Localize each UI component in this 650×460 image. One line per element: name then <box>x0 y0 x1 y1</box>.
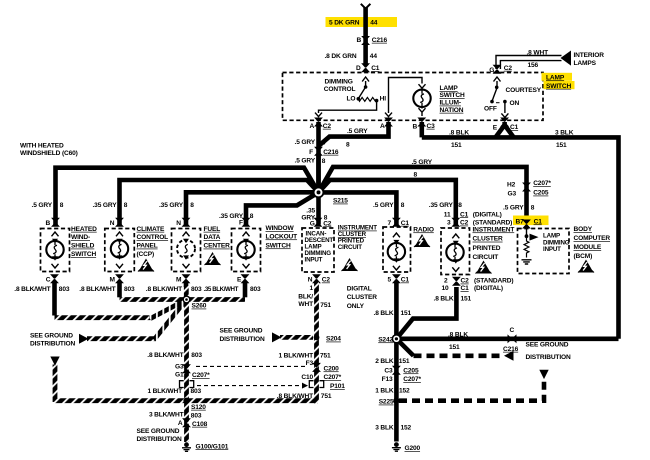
wire: dimmer output A C2 + A merge <box>316 122 321 192</box>
wire: radio ground to S242 <box>394 281 399 339</box>
svg-text:G3: G3 <box>508 190 517 197</box>
svg-text:152: 152 <box>399 388 410 395</box>
svg-text:.8 BLK/WHT: .8 BLK/WHT <box>147 352 183 359</box>
svg-text:1 BLK: 1 BLK <box>375 388 394 395</box>
svg-text:MODULE: MODULE <box>574 244 602 251</box>
svg-text:CIRCUIT: CIRCUIT <box>473 254 499 261</box>
feeder to fuel data center <box>186 192 319 224</box>
svg-text:3 BLK: 3 BLK <box>375 424 394 431</box>
svg-text:B7: B7 <box>516 218 525 225</box>
BCM internal: resistor <box>524 236 529 257</box>
pin A C2 <box>314 118 323 127</box>
svg-text:C1: C1 <box>461 285 470 292</box>
svg-text:C2: C2 <box>322 277 331 284</box>
svg-text:CLUSTER: CLUSTER <box>347 294 377 301</box>
incandescent lamp dimming input box <box>302 228 334 272</box>
wire pin G to courtesy switch <box>496 81 498 87</box>
feeder to BCM (right) <box>319 167 527 225</box>
arrow into P101 <box>302 383 308 389</box>
svg-text:G3: G3 <box>175 363 184 370</box>
wire lamp to pin B C3 <box>421 107 423 116</box>
svg-text:CENTER: CENTER <box>204 243 231 250</box>
arrow below lamp <box>419 108 426 112</box>
svg-text:INPUT: INPUT <box>543 246 561 253</box>
pin N (fuel data center) <box>182 218 191 227</box>
svg-text:151: 151 <box>451 142 462 149</box>
svg-text:SWITCH: SWITCH <box>266 242 291 249</box>
svg-text:F13: F13 <box>382 376 393 383</box>
see ground distribution (S242) <box>396 339 413 356</box>
splice S260 <box>183 296 191 304</box>
yellow highlight B7 C1 <box>513 216 549 226</box>
pin B7 C1 (BCM) <box>522 220 531 229</box>
wire: S242 down <box>394 339 399 442</box>
pin M (fuel data center) <box>182 274 191 283</box>
svg-text:C2: C2 <box>461 278 470 285</box>
connector C216 pin C (horizontal) <box>508 334 517 343</box>
ESD symbol (instrument cluster left) <box>342 258 358 271</box>
svg-text:.5 GRY: .5 GRY <box>295 139 316 146</box>
svg-text:G200: G200 <box>405 445 421 452</box>
svg-text:.8 BLK: .8 BLK <box>449 129 469 136</box>
splice S242 <box>392 334 402 344</box>
svg-text:803: 803 <box>124 286 135 293</box>
svg-text:M: M <box>176 277 182 284</box>
svg-text:44: 44 <box>370 20 378 27</box>
svg-text:S242: S242 <box>378 336 393 343</box>
svg-text:.8 DK GRN: .8 DK GRN <box>325 53 357 60</box>
hatched run lockout to S260 <box>187 297 246 302</box>
pin 5 C1 (radio) <box>392 274 401 283</box>
lamp: climate control panel illumination <box>111 240 128 257</box>
connector C200 pin F3 <box>312 363 321 372</box>
ESD symbol (instrument cluster right) <box>476 261 492 274</box>
svg-text:BODY: BODY <box>574 226 593 233</box>
ESD symbol (ccp) <box>138 259 154 272</box>
svg-text:C216: C216 <box>372 37 388 44</box>
svg-text:C2: C2 <box>323 220 332 227</box>
hatched run ccp to S260 <box>120 297 187 302</box>
svg-text:5 DK GRN: 5 DK GRN <box>329 20 360 27</box>
svg-text:DISTRIBUTION: DISTRIBUTION <box>526 354 571 361</box>
svg-text:751: 751 <box>321 393 332 400</box>
arrow INTERIOR LAMPS <box>561 51 572 66</box>
pin 11 C1 / 3 C2 (instrument cluster) <box>451 218 460 227</box>
wire: main dimmer rail down to incandescent input <box>316 155 321 225</box>
connector C108 pin A <box>182 418 191 427</box>
arrow into pin A (lamp rail) <box>385 113 392 117</box>
pin N (climate control panel) <box>115 218 124 227</box>
svg-text:DIGITAL: DIGITAL <box>347 286 372 293</box>
svg-text:.5 GRY: .5 GRY <box>347 128 368 135</box>
splice S120 <box>183 398 189 404</box>
svg-text:B: B <box>357 37 362 44</box>
svg-text:C207*: C207* <box>324 374 342 381</box>
svg-text:DISTRIBUTION: DISTRIBUTION <box>137 436 182 443</box>
alignment dashes C207* <box>196 365 306 367</box>
window lockout switch box <box>232 229 261 272</box>
pin A <box>384 118 393 127</box>
svg-text:8: 8 <box>401 202 405 209</box>
svg-text:2: 2 <box>444 278 448 285</box>
arrow into pin A C2 <box>315 113 322 117</box>
ground G100/G101 <box>182 442 191 451</box>
BCM internal: input node <box>526 229 528 237</box>
svg-text:C1: C1 <box>371 65 380 72</box>
svg-text:C2: C2 <box>460 220 469 227</box>
body computer module box <box>518 229 570 274</box>
hatched riser to triangle <box>53 365 58 403</box>
svg-text:C: C <box>510 327 515 334</box>
svg-text:M: M <box>110 277 116 284</box>
wire: fuel data ground drop <box>184 281 189 287</box>
BCM internal: ground <box>522 260 532 264</box>
svg-text:C1: C1 <box>510 124 519 131</box>
svg-text:DATA: DATA <box>204 234 221 241</box>
svg-text:.8 BLK/WHT: .8 BLK/WHT <box>146 286 182 293</box>
svg-text:C1: C1 <box>401 220 410 227</box>
lamp: heated windshield switch illumination <box>46 241 63 258</box>
dimmer input arrow (pin D inside) <box>362 77 369 82</box>
svg-text:S215: S215 <box>333 198 348 205</box>
svg-text:ILLUM-: ILLUM- <box>440 100 461 107</box>
wire .8 BLK 151 / 3 BLK 151 bus <box>422 122 619 339</box>
svg-text:C205: C205 <box>533 190 549 197</box>
svg-text:803: 803 <box>191 388 202 395</box>
wire: S260 to G3 (striped) <box>184 300 189 443</box>
svg-text:.35: .35 <box>306 207 315 214</box>
wire: cluster ground to S242 <box>396 287 456 339</box>
svg-text:C108: C108 <box>192 421 208 428</box>
resistor: dimming rheostat LO-HI <box>358 97 376 101</box>
pin G C2 (incandescent dimming input) <box>314 218 323 227</box>
svg-text:10: 10 <box>442 285 450 292</box>
svg-text:SEE GROUND: SEE GROUND <box>30 333 73 340</box>
svg-text:44: 44 <box>370 53 378 60</box>
triangle (ground distribution, pointing down) <box>50 357 59 366</box>
svg-text:803: 803 <box>191 352 202 359</box>
svg-text:LAMPS: LAMPS <box>574 60 597 67</box>
svg-text:S260: S260 <box>192 303 207 310</box>
svg-text:C1: C1 <box>534 218 543 225</box>
svg-text:N: N <box>308 277 313 284</box>
svg-text:.5 GRY: .5 GRY <box>373 202 394 209</box>
svg-text:.8 BLK: .8 BLK <box>374 310 394 317</box>
pin E C1 <box>500 118 509 127</box>
svg-text:C1: C1 <box>401 277 410 284</box>
svg-text:8: 8 <box>414 172 418 179</box>
svg-text:C205: C205 <box>403 367 419 374</box>
svg-text:1 BLK/WHT: 1 BLK/WHT <box>278 353 313 360</box>
P101 brackets (right) <box>309 381 323 388</box>
ground G200 <box>392 442 401 451</box>
dashed wire S225 to ground distribution <box>399 380 544 401</box>
fork from pin E C1 <box>496 122 514 137</box>
svg-text:.8 BLK/WHT: .8 BLK/WHT <box>277 393 313 400</box>
instrument cluster printed circuit box <box>441 228 470 275</box>
svg-text:.5 GRY: .5 GRY <box>503 205 524 212</box>
svg-text:LOCKOUT: LOCKOUT <box>266 233 298 240</box>
svg-text:151: 151 <box>449 344 460 351</box>
svg-text:5: 5 <box>388 277 392 284</box>
svg-text:G: G <box>310 220 315 227</box>
svg-text:(BCM): (BCM) <box>574 253 593 260</box>
triangle (pointing up) <box>539 370 548 379</box>
wire: heated windshield ground drop <box>52 281 57 316</box>
svg-text:ON: ON <box>510 100 520 107</box>
svg-text:D: D <box>356 65 361 72</box>
connector C207* G3/G1 <box>182 364 191 373</box>
svg-text:8: 8 <box>322 140 326 147</box>
svg-text:PANEL: PANEL <box>137 243 158 250</box>
svg-text:.8 BLK/WHT: .8 BLK/WHT <box>14 286 50 293</box>
svg-text:CLUSTER: CLUSTER <box>473 236 503 243</box>
wire: rheostat output to pin A C2 <box>319 101 377 113</box>
ESD symbol (fuel data center) <box>205 252 221 265</box>
connector H2 C207* / G3 C205 <box>522 183 531 192</box>
svg-text:.5 GRY: .5 GRY <box>32 202 53 209</box>
svg-text:G: G <box>489 67 494 74</box>
svg-text:WINDSHIELD (C60): WINDSHIELD (C60) <box>20 150 78 157</box>
svg-text:COMPUTER: COMPUTER <box>574 235 611 242</box>
heated windshield switch box <box>41 229 70 272</box>
ESD symbol (BCM) <box>578 260 594 273</box>
wire: ccp ground drop <box>117 281 122 297</box>
svg-text:ONLY: ONLY <box>347 303 365 310</box>
feeder to heated windshield switch <box>56 168 319 225</box>
svg-text:A: A <box>310 123 315 130</box>
svg-text:803: 803 <box>59 286 70 293</box>
fuel data center box <box>172 229 201 272</box>
arrow into illumination lamp <box>419 84 426 88</box>
feeder to window lockout switch <box>246 192 319 224</box>
node LO <box>357 97 361 101</box>
svg-text:E: E <box>493 124 498 131</box>
svg-text:C207*: C207* <box>403 376 421 383</box>
continuation chevron (top of page) <box>361 4 371 9</box>
svg-text:803: 803 <box>191 286 202 293</box>
svg-text:A: A <box>380 123 385 130</box>
svg-text:751: 751 <box>320 353 331 360</box>
svg-text:P101: P101 <box>330 383 345 390</box>
svg-text:.5 GRY: .5 GRY <box>295 158 316 165</box>
svg-text:RADIO: RADIO <box>413 226 434 233</box>
svg-text:.35 BLK/WHT: .35 BLK/WHT <box>204 286 239 293</box>
lamp switch dashed box <box>283 73 544 121</box>
wire S242 to C216 to courtesy ground bus <box>396 336 618 341</box>
svg-text:3: 3 <box>447 220 451 227</box>
svg-text:.35 GRY: .35 GRY <box>93 202 118 209</box>
node HI <box>375 99 379 103</box>
svg-text:G1: G1 <box>175 371 184 378</box>
svg-text:F: F <box>309 149 313 156</box>
svg-text:OFF: OFF <box>484 106 497 113</box>
svg-text:803: 803 <box>250 286 261 293</box>
wire: lamp rail pin A <box>389 78 423 114</box>
splice S215 <box>313 187 325 199</box>
svg-text:7: 7 <box>388 220 392 227</box>
svg-text:C3: C3 <box>427 123 436 130</box>
svg-text:DIMMING: DIMMING <box>325 79 353 86</box>
node ON contact <box>503 100 507 104</box>
svg-text:751: 751 <box>320 302 331 309</box>
svg-text:8: 8 <box>531 205 535 212</box>
svg-text:N: N <box>176 220 181 227</box>
svg-text:151: 151 <box>461 295 472 302</box>
pin C (heated windshield switch) <box>50 274 59 283</box>
switch arm (courtesy, open at OFF) <box>492 87 497 101</box>
svg-text:C216: C216 <box>323 149 339 156</box>
alignment dashes P101 <box>197 385 299 387</box>
wire: dimmer wiper <box>365 81 367 87</box>
BCM internal: signal arrow <box>530 234 539 241</box>
svg-text:C1: C1 <box>460 211 469 218</box>
lamp: fuel data center illumination (dashed) <box>177 240 195 258</box>
svg-text:.8 BLK: .8 BLK <box>448 331 468 338</box>
svg-text:.35 GRY: .35 GRY <box>429 202 454 209</box>
connector C1 pin D <box>361 63 370 72</box>
svg-text:S204: S204 <box>326 336 341 343</box>
svg-text:B: B <box>413 124 418 131</box>
wire: window lockout ground drop <box>243 281 248 297</box>
svg-text:H2: H2 <box>507 181 516 188</box>
svg-text:LAMP: LAMP <box>440 85 459 92</box>
svg-text:C216: C216 <box>503 346 519 353</box>
svg-text:.8 BLK: .8 BLK <box>434 295 454 302</box>
svg-text:.8 WHT: .8 WHT <box>527 49 549 56</box>
svg-text:DISTRIBUTION: DISTRIBUTION <box>30 341 75 348</box>
svg-text:C2: C2 <box>323 123 332 130</box>
svg-text:PRINTED: PRINTED <box>473 245 501 252</box>
feeder to instrument cluster (right) <box>319 180 456 225</box>
wire: .5 DK GRN 44 feed from top <box>363 8 368 65</box>
svg-text:HI: HI <box>380 96 387 103</box>
feeder to climate control panel <box>120 180 319 225</box>
svg-text:WHT: WHT <box>298 301 313 308</box>
svg-text:2 BLK: 2 BLK <box>375 358 394 365</box>
svg-text:N: N <box>110 220 115 227</box>
hatched run to S260 (heated windshield) <box>55 315 153 320</box>
pin 2 C2 / 10 C1 (instrument cluster) <box>452 277 461 286</box>
svg-text:C2: C2 <box>504 65 513 72</box>
svg-text:151: 151 <box>556 142 567 149</box>
svg-text:A: A <box>178 420 183 427</box>
svg-text:SEE GROUND: SEE GROUND <box>220 327 263 334</box>
hatched ground distribution bus <box>55 398 318 403</box>
lamp: instrument cluster illumination <box>446 244 463 261</box>
svg-text:3 BLK/WHT: 3 BLK/WHT <box>149 411 184 418</box>
svg-text:NATION: NATION <box>440 107 464 114</box>
pin F (window lockout switch) <box>242 218 251 227</box>
svg-text:SEE GROUND: SEE GROUND <box>137 428 180 435</box>
pin E (window lockout switch) <box>241 274 250 283</box>
radio box <box>383 227 411 272</box>
lamp: lamp switch illumination <box>413 90 430 107</box>
svg-text:B: B <box>46 220 51 227</box>
svg-text:BLK/: BLK/ <box>298 294 313 301</box>
connector C216 pin B <box>361 36 370 45</box>
svg-text:COURTESY: COURTESY <box>506 87 542 94</box>
svg-text:C: C <box>46 277 51 284</box>
svg-text:C207*: C207* <box>533 180 551 187</box>
svg-text:LO: LO <box>347 96 356 103</box>
svg-text:.35 GRY: .35 GRY <box>159 202 184 209</box>
svg-text:8: 8 <box>322 158 326 165</box>
svg-text:1 BLK/WHT: 1 BLK/WHT <box>147 388 182 395</box>
arrow into pin E C1 <box>501 113 508 117</box>
svg-text:SWITCH: SWITCH <box>71 251 96 258</box>
svg-text:151: 151 <box>399 358 410 365</box>
climate control panel box <box>105 229 135 272</box>
node OFF contact <box>490 100 494 104</box>
svg-text:.8 BLK/WHT: .8 BLK/WHT <box>79 286 115 293</box>
svg-text:152: 152 <box>401 424 412 431</box>
pin M (climate control panel) <box>115 274 124 283</box>
pin B C3 <box>417 118 426 127</box>
switch arm to LO <box>358 87 365 99</box>
svg-text:8: 8 <box>250 213 254 220</box>
svg-text:3 BLK: 3 BLK <box>555 129 574 136</box>
svg-text:CIRCUIT: CIRCUIT <box>338 244 362 251</box>
svg-text:8: 8 <box>346 141 350 148</box>
lamp: radio illumination <box>388 243 405 260</box>
svg-text:8: 8 <box>124 202 128 209</box>
svg-text:G100/G101: G100/G101 <box>196 443 229 450</box>
yellow highlight "5 DK GRN 44" <box>326 17 398 27</box>
svg-text:C200: C200 <box>324 365 340 372</box>
svg-text:CLIMATE: CLIMATE <box>137 226 166 233</box>
svg-text:8: 8 <box>458 202 462 209</box>
svg-text:DISTRIBUTION: DISTRIBUTION <box>220 336 265 343</box>
svg-text:FUEL: FUEL <box>204 226 221 233</box>
svg-text:CONTROL: CONTROL <box>324 86 356 93</box>
pin N C2 (incandescent dimming input) <box>312 274 321 283</box>
svg-text:803: 803 <box>191 412 202 419</box>
svg-text:(DIGITAL): (DIGITAL) <box>473 211 502 218</box>
svg-text:F: F <box>239 219 243 226</box>
connector C216 pin F <box>314 147 323 156</box>
svg-text:INPUT: INPUT <box>305 256 323 263</box>
lamp: window lockout switch illumination <box>237 241 254 258</box>
svg-text:8: 8 <box>190 202 194 209</box>
wire: cluster ground (751) striped <box>317 281 319 401</box>
svg-text:WINDOW: WINDOW <box>266 225 295 232</box>
svg-text:C3: C3 <box>384 367 393 374</box>
svg-text:.5 GRY: .5 GRY <box>412 159 433 166</box>
svg-text:156: 156 <box>528 62 539 69</box>
yellow highlight LAMP SWITCH <box>542 73 573 81</box>
svg-text:SHIELD: SHIELD <box>71 243 95 250</box>
svg-text:INSTRUMENT: INSTRUMENT <box>473 226 515 233</box>
courtesy switch pin G arrow <box>494 77 501 82</box>
pin G C2 connector <box>493 65 502 74</box>
svg-text:SWITCH: SWITCH <box>546 83 571 90</box>
svg-text:INTERIOR: INTERIOR <box>574 52 605 59</box>
svg-text:(CCP): (CCP) <box>137 251 155 258</box>
wire to interior lamps (double line) <box>496 56 562 70</box>
svg-text:S120: S120 <box>191 404 206 411</box>
svg-text:S225: S225 <box>379 399 394 406</box>
svg-text:11: 11 <box>444 211 451 218</box>
courtesy moving dash <box>496 102 500 104</box>
svg-text:WITH HEATED: WITH HEATED <box>20 143 64 150</box>
wire courtesy switch to pin E C1 <box>504 102 506 113</box>
svg-text:C207*: C207* <box>192 372 210 379</box>
pin B (heated windshield switch) <box>51 218 60 227</box>
svg-text:(STANDARD): (STANDARD) <box>474 278 513 285</box>
svg-text:LAMP: LAMP <box>546 74 565 81</box>
node: wiper pivot <box>364 85 368 89</box>
